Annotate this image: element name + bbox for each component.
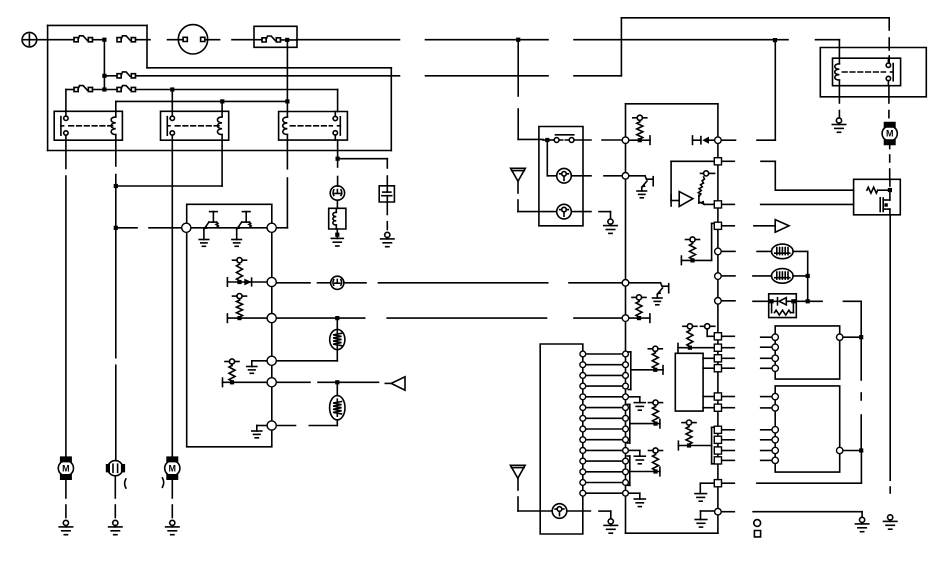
svg-text:M: M xyxy=(886,129,894,139)
svg-text:M: M xyxy=(62,463,70,473)
svg-text:M: M xyxy=(169,463,177,473)
